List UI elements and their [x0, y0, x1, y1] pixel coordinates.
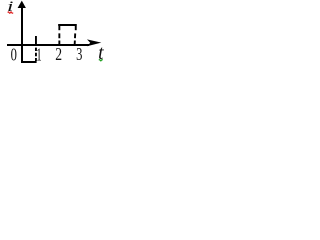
svg-text:3: 3: [76, 45, 83, 65]
svg-text:2: 2: [55, 46, 62, 65]
svg-text:0: 0: [11, 45, 18, 65]
svg-text:1: 1: [36, 46, 41, 65]
